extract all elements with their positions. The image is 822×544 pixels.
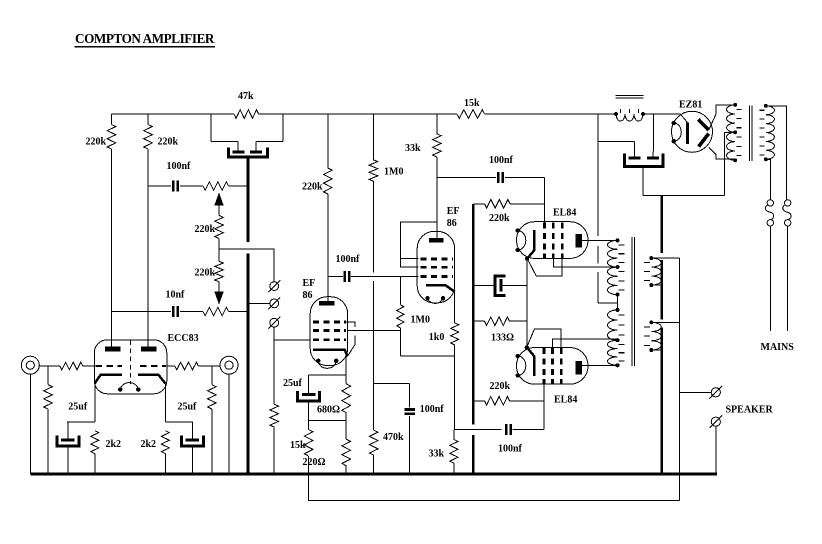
valve V5 grids (dashed vertical): [543, 348, 546, 384]
potentiometer track channel B: [203, 307, 229, 315]
wire channel B line (y311.5): [112, 311, 172, 313]
wire HT centre tap to ground: [725, 132, 736, 195]
wire C2 negative to ground node: [643, 166, 724, 195]
wire left input to grid: [39, 365, 60, 367]
svg-text:133Ω: 133Ω: [491, 333, 514, 344]
wire B+ to smoothing cap: [598, 140, 634, 142]
resistor 220k (wiper chain lower): [215, 261, 224, 281]
svg-text:15k: 15k: [290, 440, 306, 451]
capacitor can electrolytic C1b (right section): [282, 114, 284, 141]
wire V2 cathode lead: [345, 357, 347, 384]
valve V3 anode plate: [429, 238, 444, 243]
terminal tag 1: [270, 282, 279, 291]
svg-text:EF: EF: [447, 206, 460, 217]
input jack left: [21, 356, 39, 374]
svg-text:ECC83: ECC83: [168, 333, 199, 344]
wire anode feed V1b: [147, 114, 149, 125]
valve ECC83 V1 envelope: [94, 340, 167, 394]
title COMPTON AMPLIFIER: [75, 31, 215, 46]
svg-text:1M0: 1M0: [384, 167, 403, 178]
wire choke out to reservoir: [653, 114, 655, 152]
valve EL84 V5 envelope: [517, 348, 589, 385]
wire V5 grid line lower: [543, 401, 545, 430]
svg-text:EZ81: EZ81: [679, 100, 702, 111]
svg-text:1k0: 1k0: [429, 332, 445, 343]
valve V1 cathode a: [95, 375, 122, 384]
wire V3 g3+g2 strap to anode: [400, 222, 437, 267]
wire primary to switch 1: [766, 106, 787, 200]
resistor R 220k right (anode feed V1b): [144, 125, 153, 150]
svg-text:680Ω: 680Ω: [317, 405, 340, 416]
transformer mains HT secondary upper: [733, 103, 737, 107]
transformer mains HT secondary lower: [733, 158, 737, 162]
transformer OPT secondary 2: [649, 320, 653, 324]
valve V2 cathode: [313, 350, 348, 357]
terminal speaker 1: [711, 388, 720, 397]
wire V4 screen tap: [553, 258, 617, 267]
svg-text:EL84: EL84: [554, 395, 577, 406]
valve EZ81 cathode: [686, 123, 689, 145]
wire V1b cathode lead: [164, 383, 166, 422]
svg-text:COMPTON AMPLIFIER: COMPTON AMPLIFIER: [75, 31, 215, 46]
switch mains pole 2: [785, 200, 791, 206]
svg-text:100nf: 100nf: [167, 161, 192, 172]
wire V5 anode to OPT: [582, 364, 618, 366]
svg-text:220k: 220k: [86, 137, 107, 148]
resistor 47k (in HT rail): [234, 110, 259, 119]
wire primary to switch 2: [766, 159, 771, 199]
wire V2 screen to 1M0 node: [348, 329, 401, 331]
svg-text:470k: 470k: [383, 432, 404, 443]
capacitor 100nf feedback: [374, 383, 410, 385]
svg-text:47k: 47k: [238, 91, 254, 102]
wire tag 3 to V2 grid: [274, 327, 310, 340]
transformer mains primary: [764, 104, 768, 108]
resistor 220k grid leak V4: [473, 203, 484, 205]
resistor 220k (wiper chain upper): [215, 215, 224, 238]
wire grid-bus (thick): [472, 204, 475, 474]
wire anode feed V1a: [111, 114, 113, 125]
valve EZ81 heater: [674, 123, 682, 141]
capacitor EL84 cathode bypass: [473, 284, 493, 286]
resistor 15k (node A to ground): [304, 430, 313, 457]
resistor 133R shared cathode: [473, 320, 484, 322]
svg-text:25uf: 25uf: [68, 402, 88, 413]
svg-text:2k2: 2k2: [141, 439, 157, 450]
valve EF86 V3 envelope: [417, 231, 454, 303]
valve V2 grids (dashed): [313, 321, 346, 324]
svg-text:100nf: 100nf: [498, 444, 523, 455]
resistor 33k splitter lower: [450, 439, 458, 463]
wire V4 suppressor to cathode: [527, 258, 562, 276]
wire tag strip feed: [219, 249, 274, 282]
valve EZ81 anode plate 1: [698, 119, 708, 130]
resistor 1M0 from rail: [372, 114, 374, 160]
wire cathode node A: [345, 413, 347, 421]
svg-text:10nf: 10nf: [166, 289, 186, 300]
valve EZ81 anode plate 2: [699, 134, 709, 147]
wire ground bus (can C1 negative) thick: [246, 159, 249, 474]
svg-text:100nf: 100nf: [420, 404, 445, 415]
wire V5 screen tap: [553, 339, 618, 348]
svg-text:2k2: 2k2: [106, 439, 122, 450]
svg-text:100nf: 100nf: [336, 254, 361, 265]
wire shared cathode line: [526, 259, 528, 348]
transformer OPT primary upper: [616, 238, 620, 242]
svg-text:33k: 33k: [405, 143, 421, 154]
input jack right: [220, 356, 238, 374]
wire 1M0 down to feedback node (hops coupling wire): [372, 181, 374, 384]
resistor 220k grid leak V5: [473, 400, 484, 402]
capacitor can electrolytic C2b: [652, 152, 654, 158]
capacitor 100nf coupling to V4 grid: [437, 177, 496, 179]
wire V1a cathode lead: [94, 383, 96, 422]
capacitor 25uf V1b: [165, 421, 193, 423]
svg-text:25uf: 25uf: [178, 402, 198, 413]
wire V5 suppressor to cathode: [527, 329, 561, 348]
valve V3 cathode: [426, 285, 455, 292]
transformer OPT primary lower-2: [616, 363, 620, 367]
valve V1 anode b: [141, 347, 157, 352]
terminal tag 2: [270, 299, 279, 308]
svg-text:EF: EF: [303, 278, 316, 289]
valve V1 centre divider: [129, 341, 131, 385]
valve V5 anode plate: [576, 361, 582, 375]
transformer OPT primary lower: [616, 308, 620, 312]
wire B+ to OPT centre tap (hops anode and screen wires): [598, 114, 613, 303]
wire ground detour loop: [309, 475, 680, 500]
resistor 220R V2 cathode lower: [342, 439, 351, 466]
valve V1 anode a: [105, 347, 120, 352]
capacitor 100nf coupling to V5 grid: [454, 429, 501, 431]
valve EF86 V2 envelope: [310, 297, 347, 366]
resistor grid stopper left: [60, 362, 83, 370]
svg-text:220Ω: 220Ω: [303, 457, 326, 468]
valve EZ81 rectifier envelope: [672, 111, 713, 152]
resistor 1k0 V3 cathode: [454, 292, 456, 323]
wire V4 anode to OPT: [582, 239, 618, 241]
valve V2 anode plate: [319, 301, 335, 305]
resistor grid leak input left: [47, 366, 49, 385]
wire right jack to ground: [228, 374, 230, 474]
resistor 2k2 V1a: [91, 431, 99, 454]
potentiometer wiper arrow down: [218, 282, 220, 292]
svg-text:25uf: 25uf: [283, 378, 303, 389]
resistor R 220k left (anode feed V1a): [107, 125, 116, 150]
svg-text:SPEAKER: SPEAKER: [726, 405, 774, 416]
inductor smoothing choke: [614, 112, 618, 116]
capacitor can C2 common bracket: [625, 154, 664, 167]
terminal tag 3: [270, 318, 279, 327]
valve V4 anode plate: [576, 234, 582, 248]
svg-text:1M0: 1M0: [411, 315, 430, 326]
svg-text:220k: 220k: [490, 381, 511, 392]
wire bus to tag 2: [248, 302, 270, 304]
svg-text:86: 86: [303, 290, 313, 301]
svg-text:15k: 15k: [464, 98, 480, 109]
potentiometer track 100k channel A: [203, 182, 229, 190]
valve V4 heater: [518, 231, 526, 250]
svg-text:100nf: 100nf: [489, 155, 514, 166]
svg-text:220k: 220k: [158, 137, 179, 148]
valve V4 grids (dashed vertical): [543, 223, 546, 259]
capacitor 25uf V2: [309, 374, 347, 376]
wire ground rail (thick): [30, 472, 717, 475]
wire mains leads: [769, 226, 771, 331]
potentiometer wiper arrow up: [218, 205, 220, 215]
transformer OPT secondary 1: [649, 256, 653, 260]
valve V5 cathode: [527, 348, 534, 376]
capacitor 25uf V1a: [67, 421, 95, 423]
svg-text:220k: 220k: [489, 213, 510, 224]
valve V4 cathode: [527, 230, 534, 258]
capacitor 100nf coupling V2-V3: [328, 276, 343, 278]
valve V2 heater: [318, 361, 336, 369]
capacitor can C1 common bracket: [228, 148, 267, 158]
resistor grid leak input right: [211, 366, 213, 385]
svg-text:EL84: EL84: [553, 208, 576, 219]
wire splitter lower node: [400, 355, 454, 357]
wire V4 grid line: [543, 178, 545, 223]
valve EL84 V4 envelope: [517, 222, 589, 259]
resistor grid stopper right: [175, 362, 199, 370]
wire to speaker terminal 1: [680, 391, 712, 393]
resistor 1M0 grid leak V3: [399, 277, 401, 305]
valve V1 grid (dashed): [96, 365, 123, 367]
wire speaker live: [679, 258, 681, 474]
wire V5 grid down: [543, 384, 545, 401]
wire HT supply rail: [112, 113, 654, 115]
wire wiper chain middle: [218, 239, 220, 262]
wire ground return (thick): [660, 195, 663, 474]
valve V3 grids (dashed): [421, 258, 453, 261]
svg-text:220k: 220k: [302, 182, 323, 193]
wire V2 g3 to cathode: [346, 322, 355, 356]
wire channel A line (y186): [148, 185, 171, 187]
terminal speaker 2: [711, 417, 720, 426]
capacitor 10nf (channel B): [172, 306, 175, 317]
wire EZ81 anode 2 to HT winding: [709, 148, 735, 159]
capacitor can electrolytic C2a: [633, 141, 635, 157]
transformer mains core: [748, 106, 750, 162]
valve V5 heater: [518, 356, 526, 375]
valve V3 heater: [428, 298, 444, 303]
transformer OPT core: [631, 237, 633, 366]
svg-text:220k: 220k: [195, 267, 216, 278]
transformer OPT primary upper-2: [616, 293, 620, 297]
wire right grid to jack: [167, 365, 175, 367]
wire speaker terminal 2 to ground rail: [715, 426, 717, 473]
wire EZ81 cathode to rail: [654, 114, 688, 123]
resistor 2k2 V1b: [161, 431, 169, 454]
valve V1 heater: [120, 383, 138, 390]
resistor 470k feedback: [369, 430, 378, 455]
wire V2 anode: [327, 194, 329, 301]
resistor 15k (in HT rail): [457, 110, 485, 119]
capacitor 100nf (channel A): [172, 181, 175, 192]
svg-text:33k: 33k: [429, 449, 445, 460]
wire EZ81 anode 1 to HT winding: [709, 105, 736, 130]
wire left jack to ground: [29, 374, 31, 474]
valve V1 cathode b: [138, 375, 165, 384]
svg-text:220k: 220k: [195, 224, 216, 235]
wire secondary outputs: [651, 257, 679, 259]
resistor 33k anode load V3: [436, 114, 438, 134]
switch mains pole 1: [767, 200, 773, 206]
svg-text:86: 86: [447, 218, 457, 229]
svg-text:MAINS: MAINS: [761, 342, 795, 353]
resistor 680R V2 cathode: [342, 384, 351, 413]
wire V3 anode: [436, 157, 438, 238]
wire bracket to node A: [308, 401, 310, 421]
resistor grid leak V2: [273, 340, 275, 404]
resistor 220k anode load V2: [327, 114, 329, 168]
capacitor can electrolytic C1a (left section): [210, 114, 212, 141]
